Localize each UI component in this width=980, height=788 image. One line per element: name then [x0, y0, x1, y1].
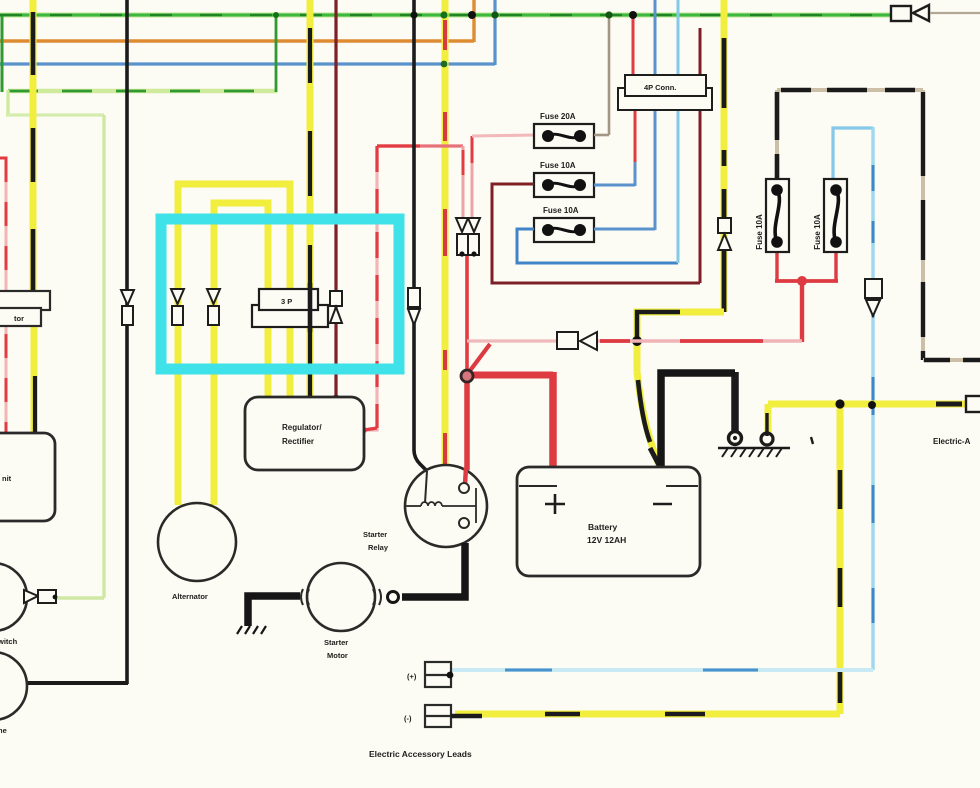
- svg-text:Fuse 10A: Fuse 10A: [543, 206, 579, 215]
- svg-text:Fuse 10A: Fuse 10A: [813, 214, 822, 250]
- svg-text:12V 12AH: 12V 12AH: [587, 535, 626, 545]
- svg-text:Battery: Battery: [588, 522, 618, 532]
- svg-text:Rectifier: Rectifier: [282, 437, 314, 446]
- svg-text:3 P: 3 P: [281, 297, 292, 306]
- svg-text:ne: ne: [0, 726, 7, 735]
- svg-text:Starter: Starter: [324, 638, 348, 647]
- svg-text:Electric-A: Electric-A: [933, 437, 971, 446]
- svg-text:Electric Accessory Leads: Electric Accessory Leads: [369, 749, 472, 759]
- svg-text:Motor: Motor: [327, 651, 348, 660]
- svg-text:Fuse 10A: Fuse 10A: [755, 214, 764, 250]
- svg-text:Fuse 20A: Fuse 20A: [540, 112, 576, 121]
- svg-text:Fuse 10A: Fuse 10A: [540, 161, 576, 170]
- svg-text:Relay: Relay: [368, 543, 389, 552]
- svg-text:Alternator: Alternator: [172, 592, 208, 601]
- svg-text:(-): (-): [404, 714, 412, 723]
- svg-text:Starter: Starter: [363, 530, 387, 539]
- svg-text:(+): (+): [407, 672, 417, 681]
- svg-text:Regulator/: Regulator/: [282, 423, 322, 432]
- svg-text:4P Conn.: 4P Conn.: [644, 83, 676, 92]
- svg-text:witch: witch: [0, 637, 18, 646]
- svg-text:tor: tor: [14, 314, 24, 323]
- svg-text:nit: nit: [2, 474, 12, 483]
